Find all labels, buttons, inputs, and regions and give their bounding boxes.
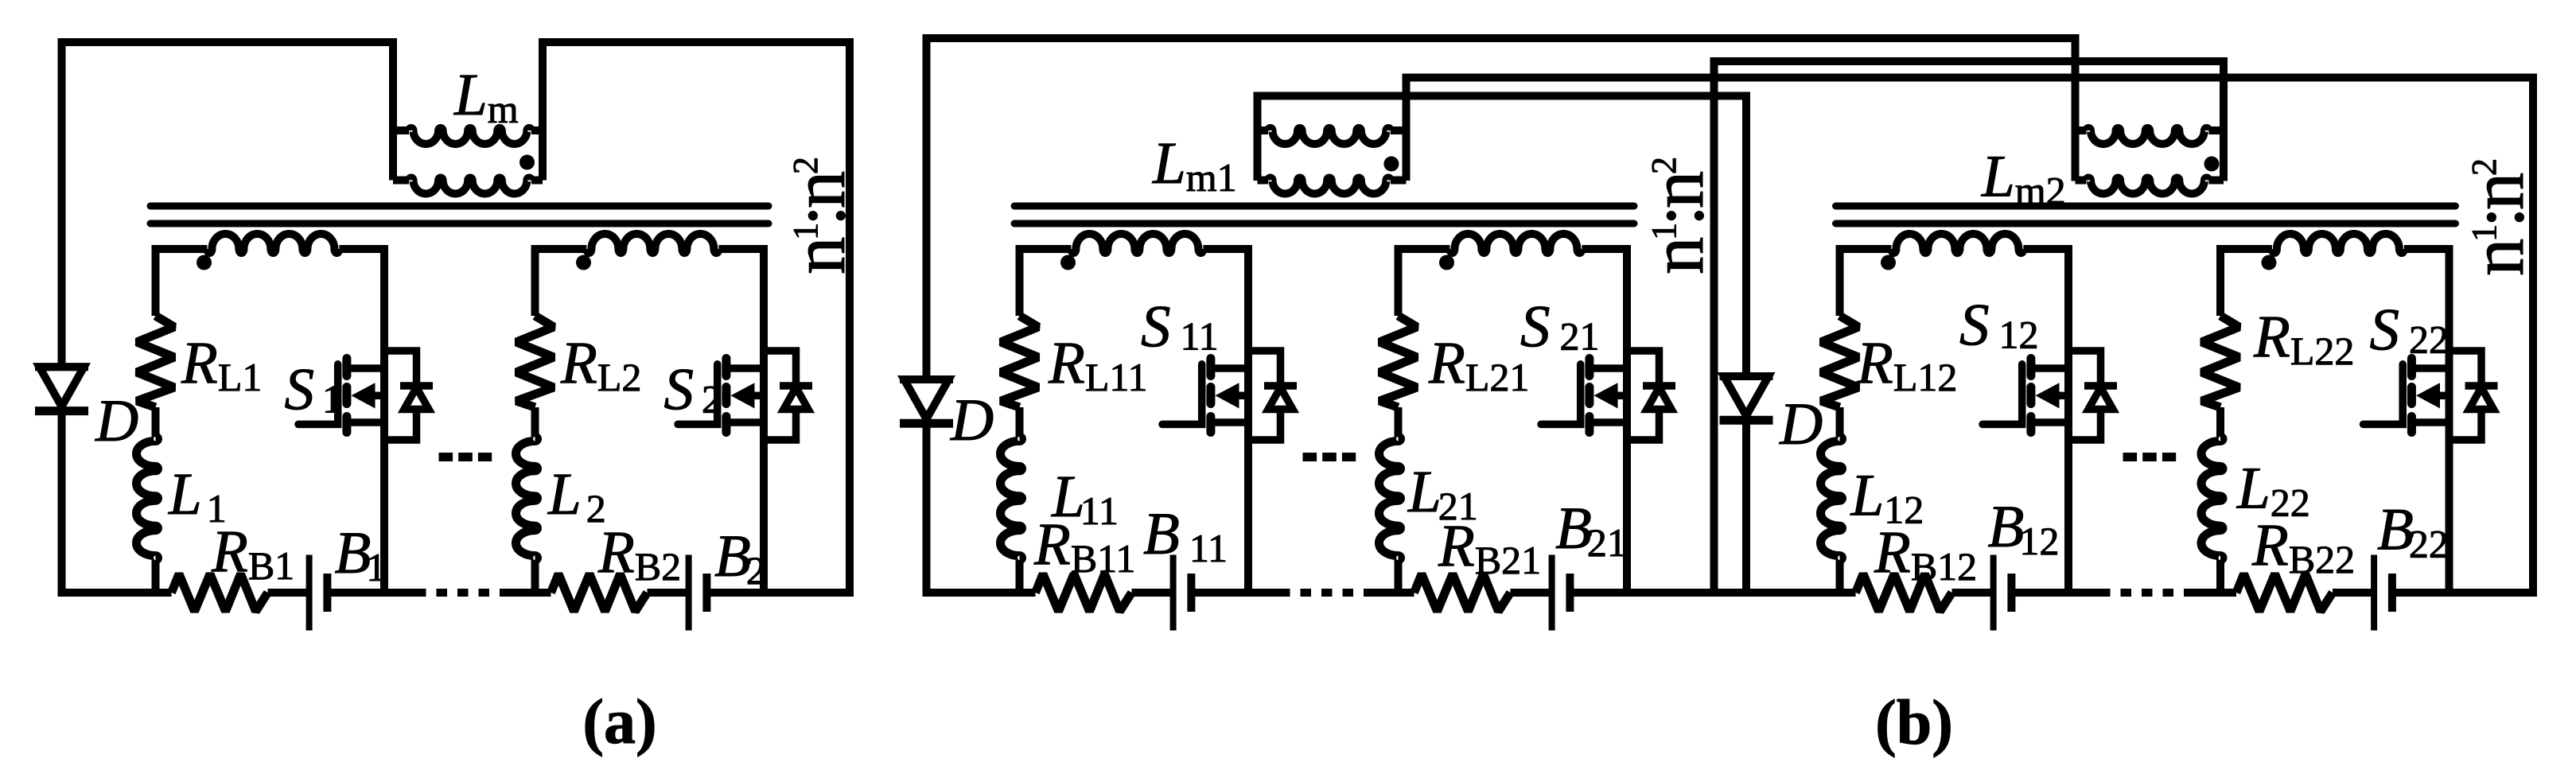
svg-text:S21: S21 [1520, 294, 1600, 360]
wire top-right (a) [539, 38, 854, 46]
svg-text:RL11: RL11 [1048, 330, 1148, 399]
inductor Lm winding row 2 [409, 178, 531, 194]
transistor S_21 S21 cell [1541, 351, 1675, 440]
phase dot Lm1 [1383, 157, 1399, 172]
svg-text:S11: S11 [1141, 294, 1219, 360]
svg-text:RL21: RL21 [1428, 330, 1529, 399]
wire secondary loop left S11 cell [1020, 249, 1072, 316]
wire Lm1 row1 stubs [1258, 126, 1407, 134]
wire R-to-L S21 cell [1395, 407, 1403, 437]
inductor Lm1 winding row 2 [1268, 178, 1391, 194]
svg-text:RL1: RL1 [181, 330, 262, 399]
wire left vertical (b) [923, 34, 931, 380]
diode D (b) module2 [1720, 376, 1773, 420]
resistor R_L1 S1 cell [137, 316, 174, 407]
wire diode-to-bus (a) [58, 411, 66, 597]
svg-text:RB12: RB12 [1874, 519, 1977, 589]
svg-text:RL12: RL12 [1856, 330, 1957, 399]
wire secondary loop right / source S11 cell [1203, 249, 1248, 597]
wire bus a seg2 [268, 589, 310, 597]
wire L-to-bus S11 cell [1016, 560, 1024, 597]
resistor R_L21 S21 cell [1379, 316, 1417, 407]
inductor L_1 S1 cell [137, 437, 158, 560]
resistor R_B21 S21 cell [1414, 574, 1511, 612]
wire R-to-L S1 cell [152, 407, 160, 437]
transistor S_11 S11 cell [1162, 351, 1297, 440]
battery B_22 S22 cell [2374, 555, 2392, 631]
inductor L_11 S11 cell [1001, 437, 1022, 560]
resistor R_L11 S11 cell [1001, 316, 1038, 407]
transformer core (b) module2 [1836, 206, 2456, 224]
wire Lm row2 stubs [393, 177, 543, 185]
wire Lm right vertical [539, 38, 547, 181]
wire R-to-L S2 cell [531, 407, 539, 437]
wire bus b dashed omitted-cells m2 [2099, 589, 2195, 597]
wire bus a seg3 [327, 589, 415, 597]
wire secondary loop left S21 cell [1399, 249, 1450, 316]
wire secondary loop right / source S2 cell [718, 249, 764, 597]
secondary winding S1 cell [207, 234, 339, 253]
wire bus a seg1 [58, 589, 172, 597]
wire bus b seg7b [2011, 589, 2099, 597]
wire secondary loop left S22 cell [2220, 249, 2272, 316]
phase dot S2 cell [576, 255, 591, 270]
svg-text:n1:n2: n1:n2 [776, 157, 861, 274]
svg-text:L2: L2 [547, 461, 606, 531]
inductor Lm1 winding row 1 [1268, 128, 1391, 144]
resistor R_B1 S1 cell [172, 574, 268, 612]
resistor R_B12 S12 cell [1856, 574, 1952, 612]
resistor R_B2 S2 cell [551, 574, 648, 612]
wire bus b seg10 [2392, 589, 2538, 597]
wire bus a seg5 [648, 589, 689, 597]
secondary winding S21 cell [1449, 234, 1582, 253]
wire Lm1 top bar to D2 branch [1254, 92, 1751, 100]
inductor L_22 S22 cell [2201, 437, 2223, 560]
wire bus b seg7 [1952, 589, 1994, 597]
phase dot S1 cell [197, 255, 212, 270]
svg-text:Lm2: Lm2 [1981, 144, 2066, 213]
dashed continuation marks (a) [439, 453, 492, 461]
svg-text:RL22: RL22 [2253, 304, 2354, 373]
secondary winding S11 cell [1071, 234, 1203, 253]
wire Lm left vertical [389, 38, 397, 181]
wire R-to-L S12 cell [1836, 407, 1844, 437]
wire bus b seg9 [2333, 589, 2375, 597]
wire Lm2 top bar [1710, 57, 2224, 65]
svg-text:n1:n2: n1:n2 [1635, 157, 1719, 274]
wire secondary loop right / source S22 cell [2404, 249, 2450, 597]
svg-text:D: D [1779, 391, 1823, 457]
svg-text:RB1: RB1 [211, 519, 294, 588]
wire diode2-to-bus (b) [1742, 420, 1750, 597]
battery B_21 S21 cell [1552, 555, 1570, 631]
phase dot S22 cell [2262, 255, 2277, 270]
wire Lm2 row2 stubs [2076, 177, 2224, 185]
inductor Lm winding row 1 [409, 128, 531, 144]
diode D (b) module1 [900, 379, 953, 423]
svg-text:B2: B2 [714, 523, 766, 593]
diode D (a) [35, 367, 88, 410]
wire right border (a) [846, 38, 854, 597]
resistor R_L2 S2 cell [516, 316, 554, 407]
wire L-to-bus S2 cell [531, 560, 539, 597]
svg-text:RB21: RB21 [1438, 513, 1541, 582]
svg-text:RL2: RL2 [560, 330, 641, 399]
svg-text:B1: B1 [335, 520, 387, 589]
svg-text:Lm1: Lm1 [1152, 130, 1237, 200]
wire bus b seg5 [1511, 589, 1553, 597]
inductor L_21 S21 cell [1379, 437, 1401, 560]
svg-text:S22: S22 [2370, 298, 2450, 364]
transformer core (a) [150, 206, 769, 224]
svg-text:S12: S12 [1959, 293, 2039, 359]
transistor S_2 S2 cell [678, 351, 812, 440]
wire bus a dashed omitted-cells [415, 589, 511, 597]
wire Lm1 right vertical [1403, 74, 1411, 181]
inductor L_2 S2 cell [516, 437, 538, 560]
wire module divider vertical (b) [1710, 57, 1718, 597]
wire top-left (a) [58, 38, 398, 46]
battery B_1 S1 cell [309, 555, 328, 631]
dashed continuation marks (b) m2 [2123, 453, 2177, 461]
wire bus b seg3 [1191, 589, 1279, 597]
battery B_12 S12 cell [1994, 555, 2012, 631]
wire secondary loop left S1 cell [156, 249, 208, 316]
transistor S_12 S12 cell [1983, 351, 2117, 440]
wire L-to-bus S12 cell [1836, 560, 1844, 597]
resistor R_B22 S22 cell [2236, 574, 2333, 612]
wire secondary loop right / source S12 cell [2023, 249, 2068, 597]
svg-text:D: D [95, 388, 138, 454]
phase dot S21 cell [1439, 255, 1454, 270]
dashed continuation marks (b) m1 [1303, 453, 1356, 461]
wire Lm row1 stubs [393, 126, 543, 134]
wire bus a seg6 [706, 589, 854, 597]
svg-text:S2: S2 [664, 357, 722, 423]
phase dot S11 cell [1060, 255, 1076, 270]
svg-text:D: D [950, 387, 994, 453]
phase dot Lm [519, 155, 535, 170]
resistor R_B11 S11 cell [1036, 574, 1132, 612]
wire top bus (b) [923, 34, 2080, 42]
svg-text:B11: B11 [1143, 501, 1228, 570]
battery B_2 S2 cell [689, 555, 707, 631]
wire Lm1 left vertical [1254, 92, 1262, 181]
svg-text:(b): (b) [1875, 688, 1953, 758]
wire L-to-bus S1 cell [152, 560, 160, 597]
wire secondary loop right / source S21 cell [1582, 249, 1627, 597]
svg-text:B12: B12 [1988, 494, 2060, 563]
inductor Lm2 winding row 1 [2087, 128, 2209, 144]
secondary winding S12 cell [1891, 234, 2023, 253]
wire bus b seg4 [1375, 589, 1414, 597]
wire bus b dashed omitted-cells m1 [1279, 589, 1375, 597]
svg-text:B21: B21 [1555, 496, 1627, 565]
wire Lm1 row2 stubs [1258, 177, 1407, 185]
wire L-to-bus S21 cell [1395, 560, 1403, 597]
wire Lm2 row1 stubs [2076, 126, 2224, 134]
wire right border (b) [2529, 74, 2537, 597]
wire Lm2 left vertical [2072, 34, 2080, 181]
resistor R_L22 S22 cell [2202, 316, 2239, 407]
inductor Lm2 winding row 2 [2087, 178, 2209, 194]
secondary winding S22 cell [2272, 234, 2404, 253]
phase dot S12 cell [1881, 255, 1896, 270]
transistor S_22 S22 cell [2364, 351, 2498, 440]
wire left vertical (a) [58, 38, 66, 368]
wire L-to-bus S22 cell [2216, 560, 2224, 597]
wire bus b seg8 [2195, 589, 2237, 597]
wire R-to-L S22 cell [2216, 407, 2224, 437]
resistor R_L12 S12 cell [1821, 316, 1858, 407]
svg-text:n1:n2: n1:n2 [2455, 158, 2539, 276]
wire bus a seg4 [511, 589, 551, 597]
secondary winding S2 cell [586, 234, 718, 253]
wire bus b seg6 [1570, 589, 1856, 597]
svg-text:(a): (a) [582, 687, 656, 757]
wire Lm1-to-right-border (b) [1403, 74, 2538, 82]
transistor S_1 S1 cell [298, 351, 433, 440]
transformer core (b) module1 [1014, 206, 1634, 224]
svg-text:RB2: RB2 [597, 519, 681, 589]
inductor L_12 S12 cell [1821, 437, 1843, 560]
wire secondary loop left S12 cell [1840, 249, 1892, 316]
wire bus b seg1 [923, 589, 1036, 597]
wire R-to-L S11 cell [1016, 407, 1024, 437]
wire secondary loop right / source S1 cell [339, 249, 384, 597]
wire bus b seg2 [1132, 589, 1174, 597]
svg-text:S1: S1 [285, 357, 343, 423]
wire secondary loop left S2 cell [535, 249, 587, 316]
wire D2 branch vertical [1742, 92, 1750, 377]
wire diode1-to-bus (b) [923, 423, 931, 597]
wire Lm2 right vertical [2220, 57, 2228, 181]
svg-text:Lm: Lm [453, 62, 519, 131]
battery B_11 S11 cell [1173, 555, 1192, 631]
svg-text:B22: B22 [2377, 497, 2449, 566]
phase dot Lm2 [2204, 157, 2220, 172]
